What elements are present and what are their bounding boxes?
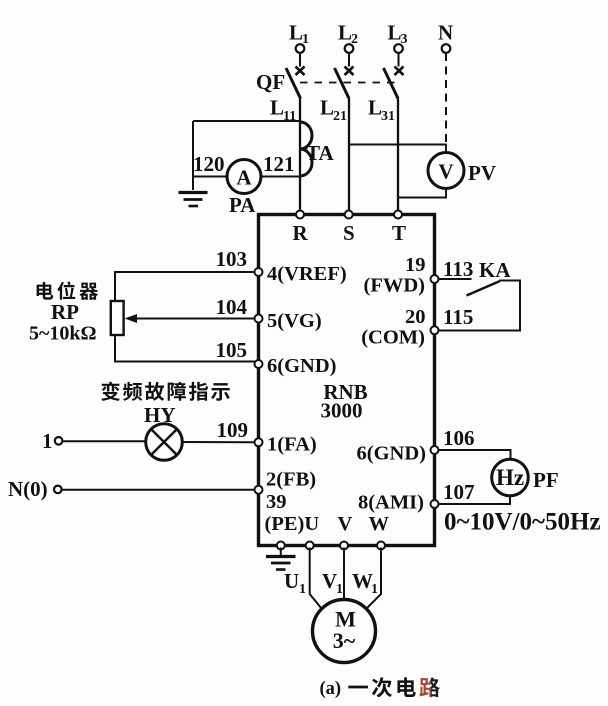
frequency meter PF (492, 459, 529, 496)
caption (a) 一次电路 (320, 677, 440, 699)
wire V to motor (343, 548, 345, 600)
terminal 8(AMI) (431, 500, 439, 508)
svg-text:31: 31 (381, 109, 395, 124)
svg-text:L: L (270, 96, 284, 120)
lamp HY (146, 424, 183, 461)
svg-text:120: 120 (193, 152, 225, 176)
svg-text:39: 39 (266, 491, 287, 513)
motor M 3~ (313, 600, 376, 663)
svg-text:L: L (289, 21, 303, 45)
inverter block RNB 3000 (259, 215, 435, 546)
svg-text:(PE)U: (PE)U (265, 513, 320, 535)
svg-text:1: 1 (42, 429, 53, 453)
terminal R (296, 211, 304, 219)
ground (PE) (266, 548, 296, 570)
svg-text:6(GND): 6(GND) (357, 443, 426, 465)
breaker QF pole 2 blade (335, 68, 350, 99)
terminal U (306, 542, 314, 550)
wire 6(GND) to Hz meter (439, 450, 511, 459)
label 电位器 (37, 282, 98, 300)
svg-text:L: L (368, 96, 382, 120)
svg-text:6(GND): 6(GND) (267, 355, 336, 377)
wire KA to 20 (439, 281, 521, 331)
svg-text:104: 104 (216, 295, 248, 319)
svg-text:Hz: Hz (496, 465, 524, 490)
svg-text:121: 121 (263, 152, 295, 176)
potentiometer wiper arrow (125, 314, 255, 323)
svg-text:L: L (338, 21, 352, 45)
breaker QF pole 1 blade (286, 68, 301, 99)
svg-text:(FWD): (FWD) (364, 275, 425, 297)
svg-text:20: 20 (405, 306, 426, 328)
svg-text:A: A (236, 166, 252, 190)
svg-text:N(0): N(0) (8, 477, 48, 501)
label RNB 3000 (321, 380, 368, 423)
svg-text:8(AMI): 8(AMI) (358, 492, 424, 514)
svg-text:103: 103 (216, 247, 248, 271)
svg-text:V: V (338, 513, 353, 535)
svg-text:5(VG): 5(VG) (267, 310, 322, 332)
svg-text:113: 113 (443, 257, 473, 281)
terminal N (438, 21, 453, 53)
terminal W (377, 542, 385, 550)
terminal S (345, 211, 353, 219)
breaker QF pole 3 blade (384, 68, 399, 99)
potentiometer RP body (111, 301, 124, 335)
svg-text:21: 21 (333, 109, 347, 124)
wire W to motor (367, 548, 382, 609)
svg-text:3~: 3~ (333, 628, 356, 653)
terminal 20(COM) (431, 326, 439, 334)
wire lamp to 1(FA) (182, 441, 254, 443)
wire T phase line (397, 99, 399, 212)
svg-text:115: 115 (443, 305, 473, 329)
wire 103 (115, 272, 255, 301)
wire S line to PV (349, 145, 446, 153)
svg-text:1: 1 (371, 582, 378, 597)
terminal 1 (42, 429, 62, 453)
wire Hz meter to 8(AMI) (439, 496, 511, 504)
wire U to motor (310, 548, 322, 609)
terminal 19(FWD) (431, 275, 439, 283)
wire L1 to QF (299, 53, 301, 67)
svg-text:(COM): (COM) (361, 327, 425, 349)
svg-text:0~10V/0~50Hz: 0~10V/0~50Hz (444, 509, 601, 536)
ammeter PA (227, 160, 261, 194)
svg-text:N: N (438, 21, 453, 45)
terminal 2(FB) (255, 486, 263, 494)
svg-text:V: V (438, 160, 453, 184)
label L21 (320, 96, 347, 125)
svg-text:TA: TA (306, 141, 334, 165)
terminal 6(GND)-left (255, 360, 263, 368)
label U1 (284, 569, 306, 597)
wire N(0) to 2(FB) (62, 489, 255, 491)
terminal L1 (289, 21, 309, 53)
wire L2 to QF (348, 53, 350, 67)
svg-text:3000: 3000 (321, 399, 363, 423)
breaker QF pole 3 contact mark (395, 67, 404, 76)
svg-text:1: 1 (299, 582, 306, 597)
svg-text:U: U (284, 569, 299, 593)
svg-text:2: 2 (351, 32, 358, 47)
svg-text:2(FB): 2(FB) (266, 469, 316, 491)
svg-text:W: W (352, 569, 373, 593)
label L31 (368, 96, 395, 125)
svg-text:5~10kΩ: 5~10kΩ (29, 323, 97, 345)
terminal PE (277, 542, 285, 550)
wire CT secondary top (193, 120, 300, 122)
breaker QF pole 2 contact mark (345, 67, 354, 76)
wire PV to T line (398, 189, 447, 198)
label 变频故障指示 (101, 382, 229, 401)
terminal L3 (388, 21, 408, 53)
svg-text:KA: KA (479, 258, 511, 282)
svg-text:1: 1 (302, 32, 309, 47)
svg-text:4(VREF): 4(VREF) (267, 263, 347, 285)
current transformer TA (300, 122, 334, 176)
svg-text:QF: QF (256, 70, 285, 94)
svg-text:V: V (322, 569, 337, 593)
wire N dashed to PV (445, 53, 447, 143)
wire S phase line (348, 99, 350, 212)
svg-text:(a): (a) (320, 679, 342, 699)
svg-text:S: S (343, 221, 355, 245)
label W1 (352, 569, 378, 597)
terminal 1(FA) (255, 438, 263, 446)
ground (CT secondary) (179, 193, 208, 207)
terminal 4(VREF) (255, 268, 263, 276)
terminal N(0) (8, 477, 62, 501)
wire 121 (261, 176, 300, 178)
svg-text:RP: RP (51, 300, 79, 324)
wire 105 (115, 335, 255, 362)
svg-text:3: 3 (401, 32, 408, 47)
wire 120 (193, 176, 227, 178)
terminal L2 (338, 21, 358, 53)
svg-text:105: 105 (216, 338, 248, 362)
svg-text:W: W (369, 513, 390, 535)
relay contact KA blade (467, 281, 501, 296)
svg-text:L: L (320, 96, 334, 120)
breaker QF pole 1 contact mark (296, 67, 305, 76)
terminal V (340, 542, 348, 550)
wire L3 to QF (398, 53, 400, 67)
terminal T (394, 211, 402, 219)
wire R phase line (299, 99, 301, 212)
svg-text:PA: PA (229, 193, 256, 217)
svg-text:R: R (293, 221, 309, 245)
terminal 6(GND)-right (431, 446, 439, 454)
svg-text:PV: PV (468, 161, 496, 185)
svg-text:1: 1 (336, 582, 343, 597)
svg-text:1(FA): 1(FA) (267, 434, 317, 456)
svg-text:PF: PF (533, 468, 559, 492)
terminal 5(VG) (255, 315, 263, 323)
svg-text:109: 109 (217, 418, 249, 442)
svg-text:19: 19 (405, 254, 426, 276)
svg-text:L: L (388, 21, 402, 45)
breaker QF linkage dashed (300, 82, 396, 84)
voltmeter PV (428, 153, 464, 189)
svg-text:T: T (392, 221, 406, 245)
wire CT secondary left vertical (192, 121, 194, 190)
wire terminal1 to lamp (63, 440, 146, 442)
label V1 (322, 569, 343, 597)
svg-text:107: 107 (443, 480, 475, 504)
wire 19 to KA (439, 278, 472, 280)
svg-text:106: 106 (443, 426, 475, 450)
label L11 (270, 96, 296, 125)
